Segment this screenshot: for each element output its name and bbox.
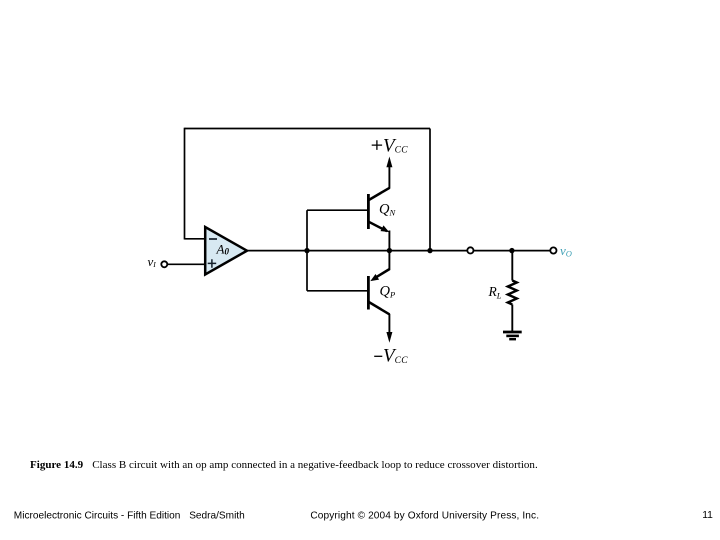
- node vO terminal: [550, 247, 556, 253]
- wire QP base: [307, 290, 368, 292]
- transistor QN collector diagonal: [369, 188, 390, 200]
- transistor QN base bar: [367, 194, 370, 229]
- wire feedback left vertical: [184, 128, 186, 240]
- svg-text:Microelectronic Circuits - Fif: Microelectronic Circuits - Fifth Edition: [14, 511, 181, 522]
- wire QP collector down: [388, 314, 390, 334]
- transistor QP base bar: [367, 276, 370, 310]
- arrow -VCC: [386, 332, 392, 343]
- wire output right segment: [474, 250, 550, 252]
- svg-text:Copyright © 2004 by Oxford Uni: Copyright © 2004 by Oxford University Pr…: [310, 511, 539, 522]
- node op-amp output junction: [304, 248, 309, 253]
- op-amp minus sign: [209, 238, 217, 240]
- wire RL top: [511, 251, 513, 281]
- transistor QN emitter diagonal: [369, 222, 387, 231]
- node feedback junction: [427, 248, 432, 253]
- wire QN collector to VCC: [388, 165, 390, 189]
- transistor QN emitter arrowhead: [381, 225, 390, 232]
- transistor QP collector diagonal: [369, 302, 390, 314]
- node vI terminal: [161, 261, 167, 267]
- resistor RL: [508, 281, 517, 305]
- label +VCC: [372, 140, 382, 150]
- label -VCC: [374, 355, 382, 357]
- wire QP emitter from output: [388, 251, 390, 270]
- wire op-amp non-inverting input: [168, 263, 206, 265]
- wire base branch vertical: [306, 210, 308, 291]
- wire QN base: [307, 209, 368, 211]
- wire QN emitter down: [388, 231, 390, 251]
- node output open terminal: [467, 247, 473, 253]
- transistor QP emitter arrowhead: [370, 274, 379, 281]
- wire op-amp inverting input: [185, 238, 207, 240]
- svg-text:Figure 14.9Class B circuit wit: Figure 14.9Class B circuit with an op am…: [30, 459, 538, 471]
- op-amp plus sign: [208, 259, 217, 268]
- wire feedback right vertical: [429, 129, 431, 251]
- arrow +VCC: [386, 157, 392, 168]
- transistor QP emitter diagonal: [376, 269, 390, 277]
- wire RL bottom: [511, 305, 513, 332]
- op-amp A0: [205, 227, 247, 275]
- ground: [503, 331, 522, 334]
- node output junction emitters: [387, 248, 392, 253]
- wire feedback top horizontal: [185, 128, 431, 130]
- svg-text:Sedra/Smith: Sedra/Smith: [189, 511, 245, 522]
- svg-text:11: 11: [702, 510, 713, 521]
- node RL junction: [509, 248, 514, 253]
- wire op-amp output: [246, 250, 467, 252]
